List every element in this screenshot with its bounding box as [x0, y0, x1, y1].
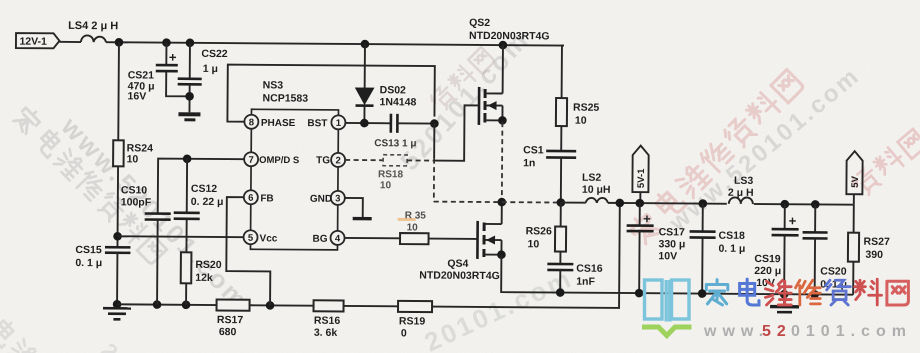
wire RS17 to FB tap [250, 304, 314, 306]
node QS4 drain / switch [497, 198, 506, 207]
node QS4 source [497, 250, 506, 259]
capacitor CS17 330u 10V [626, 203, 686, 293]
ground at pin 3 [353, 217, 372, 221]
watermark hanzi strand bottom left [0, 294, 122, 353]
node COMP line / CS12 [183, 154, 192, 163]
wire TG dashed to RS18 [345, 159, 383, 161]
output tab 5V-1 [632, 146, 648, 204]
resistor RS27 390 [848, 205, 891, 295]
node top rail / CS22 [186, 38, 195, 47]
wire QS2 source dashed to switch node [501, 122, 504, 202]
node CS10 bottom [153, 300, 162, 309]
transistor QS2 NTD20N03RT4G [468, 17, 549, 126]
node bottom line left / ground [113, 300, 122, 309]
node output / CS20 [811, 200, 820, 209]
transistor QS4 NTD20N03RT4G [419, 202, 502, 283]
node switch / snubber [556, 198, 565, 207]
node QS2 source [498, 116, 507, 125]
wire RS18 to QS2 gate [407, 159, 434, 161]
pin 2 TG [316, 153, 345, 167]
watermark red hanzi strand right [627, 68, 804, 245]
capacitor CS10 100pF [120, 158, 244, 305]
node CS19 ground [780, 290, 789, 299]
node top rail / DS02 [361, 40, 370, 49]
node output / 5V-1 [635, 199, 644, 208]
CIRCUIT PART 2: controller and power stage [226, 15, 855, 299]
wire LS2 to output rail [608, 203, 854, 205]
wire QS4 source to ground rail [501, 255, 853, 295]
capacitor CS12 0.22u [173, 159, 223, 253]
node CS16 / ground rail [556, 288, 565, 297]
logo url [703, 323, 912, 340]
node top rail / RS24 branch [115, 38, 124, 47]
ground symbol output [770, 294, 799, 312]
output tab 5V [846, 151, 862, 205]
capacitor CS15 0.1u [75, 244, 130, 304]
wire switch to LS2 [561, 202, 586, 204]
watermark red hanzi far right [850, 128, 920, 198]
node RS20 bottom [182, 300, 191, 309]
resistor RS26 10 [525, 202, 566, 264]
wire FB path from pin6 [226, 197, 271, 305]
capacitor CS20 0.1u [802, 204, 848, 294]
node top rail / CS21 [162, 38, 171, 47]
wire RS19 to output sense [432, 202, 620, 308]
CIRCUIT PART 3: output filter [626, 146, 891, 313]
resistor RS17 680 [216, 300, 249, 339]
node FB tap [266, 301, 275, 310]
inductor LS4 2uH [68, 20, 118, 42]
node CS20 ground [810, 290, 819, 299]
wire RS16 to RS19 [344, 305, 398, 307]
inductor LS3 2uH [727, 175, 754, 208]
wire 12V branch down left [117, 42, 120, 140]
capacitor CS13 1u (bootstrap) [374, 114, 434, 150]
watermark hanzi strand top left [12, 104, 168, 265]
node output sense tap [615, 199, 624, 208]
resistor RS20 12k [181, 252, 222, 305]
node CS13 / PHASE loop [430, 119, 439, 128]
node CS17 ground [635, 289, 644, 298]
wire BG row [345, 237, 400, 239]
capacitor CS22 1u [177, 43, 227, 113]
wire RS24 to Vcc node [116, 166, 119, 247]
pin 3 GND [310, 191, 345, 205]
pin 1 BST [307, 115, 345, 129]
inductor LS2 10uH [582, 172, 611, 203]
capacitor CS19 220u 10V [754, 204, 799, 294]
wire BST row [345, 122, 390, 124]
node Vcc line left [113, 232, 122, 241]
watermark hanzi fragment above mid [428, 46, 495, 113]
wire rail to RS25 [562, 46, 564, 99]
op-amp U1 : IC NS3 NCP1583 body [250, 79, 338, 250]
capacitor CS18 0.1u [689, 203, 746, 293]
pin 5 Vcc [244, 230, 278, 244]
resistor RS35 10 (gate resistor) [398, 210, 429, 244]
resistor RS18 10 (dashed, optional) [378, 155, 407, 192]
diode DS02 1N4148 [355, 44, 417, 123]
LOGO bottom right [642, 279, 912, 340]
capacitor CS21 470u 16V [128, 42, 190, 102]
node CS18 ground [698, 289, 707, 298]
wire Vcc line [118, 235, 244, 238]
logo site name glyphs [706, 279, 908, 305]
wire RS35 to QS4 gate [429, 238, 477, 240]
logo green swoosh [642, 327, 692, 336]
wire PHASE to bootstrap loop [227, 65, 434, 124]
node top rail / QS2 drain [499, 41, 508, 50]
input tab 12V-1 [16, 33, 60, 48]
pin 7 COMP/DIS [244, 152, 299, 166]
resistor RS24 10 [113, 140, 153, 166]
wire switch node dashed [434, 201, 561, 204]
wire GND pin to ground [345, 198, 363, 217]
node CS21/CS22 junction [185, 92, 194, 101]
wire PHASE vert to switch node (dashed lower part) [433, 124, 435, 159]
pin 6 FB [244, 190, 274, 204]
pin 4 BG [312, 231, 344, 245]
ground symbol bottom left [103, 308, 131, 319]
capacitor CS16 1nF [547, 262, 603, 292]
node BST / diode [360, 119, 369, 128]
node output / CS19 [780, 200, 789, 209]
resistor RS19 0 [398, 301, 432, 340]
node output / CS18 [698, 199, 707, 208]
logo book icon [645, 280, 690, 322]
capacitor CS1 1n (snubber) [523, 144, 576, 202]
wire 12V top rail [106, 42, 564, 45]
wire bottom line [117, 303, 216, 306]
wire input to inductor [59, 41, 80, 43]
resistor RS16 3.6k [313, 300, 343, 339]
ground below CS22 [178, 114, 200, 120]
pin 8 PHASE [244, 115, 295, 129]
resistor RS25 10 [556, 98, 600, 151]
